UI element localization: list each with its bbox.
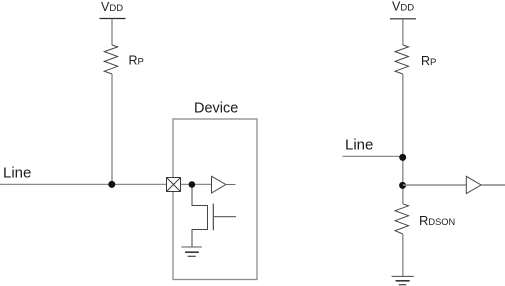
svg-text:RDSON: RDSON [419,213,455,228]
svg-text:Line: Line [345,137,373,154]
svg-text:RP: RP [129,54,144,68]
svg-text:Line: Line [3,165,31,182]
svg-text:VDD: VDD [392,0,414,14]
svg-text:RP: RP [421,54,436,68]
svg-text:Device: Device [194,101,238,117]
svg-text:VDD: VDD [101,0,123,14]
